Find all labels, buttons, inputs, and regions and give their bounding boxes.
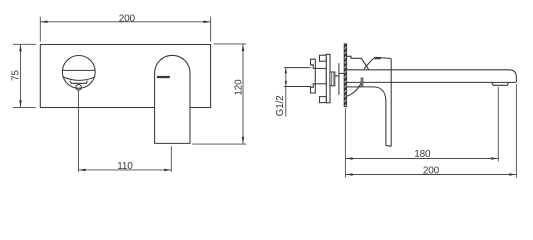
dimension 120: extension lines bbox=[214, 43, 247, 45]
svg-text:75: 75 bbox=[10, 70, 21, 81]
dimension 110: extension line right bbox=[170, 146, 172, 171]
thread lines bbox=[331, 72, 333, 86]
dimension 180: line bbox=[345, 158, 498, 160]
wall plate bbox=[40, 45, 210, 108]
dimension 200 top: arrows bbox=[40, 21, 47, 24]
leader line from aerator bbox=[78, 90, 80, 171]
spout bottom arc bbox=[63, 77, 94, 80]
inner pipe line bbox=[335, 75, 339, 77]
dimension 75: arrows bbox=[19, 44, 22, 51]
valve body cap bbox=[347, 56, 369, 70]
body boss under spout bbox=[347, 86, 362, 88]
handle right edge (crosses spout) bbox=[390, 59, 392, 147]
G1/2 dimension leader line bbox=[285, 68, 287, 117]
dimension 110: arrows bbox=[78, 169, 85, 172]
dimension 200 top: line bbox=[40, 21, 210, 23]
dimension 200 bottom: line bbox=[345, 174, 516, 176]
aerator small circle bbox=[76, 85, 82, 91]
dimension 110: line bbox=[78, 169, 171, 171]
supply pipe / G1/2 thread outline bbox=[284, 67, 310, 69]
wall escutcheon bar (hatched) bbox=[344, 44, 347, 107]
handle grip (side) bbox=[364, 57, 391, 69]
body fillet curve bbox=[347, 83, 361, 96]
spout escutcheon circle bbox=[62, 56, 95, 89]
dimension 75: extension lines bbox=[13, 43, 36, 45]
dimension 200 top: extension lines bbox=[39, 17, 41, 42]
flange tab top bbox=[320, 55, 327, 61]
spout bottom line bbox=[347, 81, 517, 83]
union nut block bbox=[315, 68, 326, 83]
union nut top lip bbox=[311, 59, 316, 68]
extension from aerator (180) bbox=[497, 87, 499, 162]
spout top outline with rounded tip bbox=[347, 70, 517, 83]
handle grip dark wedge bbox=[374, 57, 381, 59]
dimension 120: line bbox=[242, 44, 244, 144]
flange tab bottom bbox=[320, 97, 327, 103]
connector line bbox=[340, 72, 345, 74]
svg-text:200: 200 bbox=[119, 13, 136, 24]
spout underside band bbox=[70, 81, 88, 84]
aerator notch (side) bbox=[492, 82, 509, 85]
back plate bbox=[338, 63, 340, 95]
svg-text:200: 200 bbox=[423, 165, 440, 176]
dimension 120: arrows bbox=[242, 44, 245, 51]
handle paddle (front) bbox=[155, 55, 190, 143]
svg-text:G1/2: G1/2 bbox=[275, 95, 286, 117]
extension from spout tip (200) bbox=[515, 84, 517, 178]
thread nipple bbox=[330, 72, 335, 86]
union nut bottom lip bbox=[311, 84, 316, 93]
flange plate bbox=[326, 54, 330, 102]
svg-text:120: 120 bbox=[234, 79, 245, 96]
svg-text:110: 110 bbox=[117, 161, 133, 172]
spout chord line bbox=[63, 69, 95, 71]
svg-text:180: 180 bbox=[414, 149, 431, 160]
lever neck and paddle (side) bbox=[363, 87, 391, 146]
handle marking dash bbox=[157, 76, 170, 78]
boss verticals bbox=[361, 78, 363, 87]
dimension 75: line bbox=[20, 44, 22, 107]
left extension line under wall bar bbox=[344, 108, 346, 178]
